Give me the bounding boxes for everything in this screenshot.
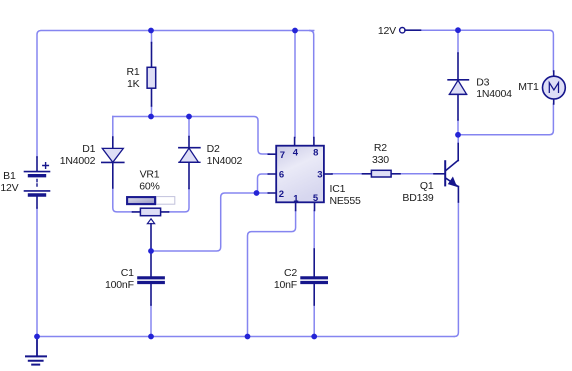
svg-text:C1: C1: [121, 267, 134, 279]
svg-text:5: 5: [313, 193, 319, 204]
diode D1: [102, 137, 124, 188]
wire D1 bottom to VR1 left: [113, 188, 133, 212]
wire Q1 emitter to ground rail: [454, 202, 458, 337]
svg-text:D2: D2: [207, 143, 220, 155]
wire diode rail to pin 7: [113, 117, 269, 155]
wire top rail with left corner: [37, 31, 314, 158]
capacitor C1: [139, 251, 164, 305]
svg-text:8: 8: [313, 148, 318, 159]
wire C2 bottom: [313, 305, 315, 337]
wire VR1 right to D2 bottom: [169, 189, 190, 212]
diode D2: [179, 137, 200, 189]
wire pin 3 to R2: [332, 173, 363, 175]
svg-text:330: 330: [372, 154, 389, 166]
svg-text:6: 6: [279, 170, 284, 181]
node IC pin4 top rail: [292, 28, 298, 34]
svg-text:1N4002: 1N4002: [60, 155, 96, 167]
wire D2 top: [188, 117, 190, 137]
wire bottom rail: [37, 336, 454, 338]
wire Q1 collector: [457, 135, 459, 144]
svg-text:1K: 1K: [127, 78, 140, 90]
12V supply terminal: [400, 28, 421, 33]
ground: [26, 337, 46, 365]
svg-text:10nF: 10nF: [274, 279, 297, 291]
motor MT1: [543, 71, 566, 104]
svg-text:100nF: 100nF: [105, 279, 134, 291]
wire motor bottom to node: [458, 104, 554, 135]
svg-text:12V: 12V: [0, 182, 18, 194]
svg-text:MT1: MT1: [518, 81, 539, 93]
svg-text:D3: D3: [476, 77, 489, 89]
svg-text:4: 4: [293, 147, 299, 158]
wire pin 2 to wiper node: [151, 193, 269, 251]
svg-text:B1: B1: [3, 170, 16, 182]
svg-text:C2: C2: [284, 267, 297, 279]
node D2 diode rail: [186, 114, 192, 120]
svg-text:1N4004: 1N4004: [476, 88, 512, 100]
svg-text:2: 2: [279, 189, 284, 200]
svg-text:60%: 60%: [139, 181, 159, 193]
svg-text:BD139: BD139: [402, 192, 433, 204]
node C1 ground: [148, 334, 154, 340]
svg-text:12V: 12V: [378, 25, 396, 37]
wire pin 8 from top rail: [310, 31, 314, 138]
svg-text:1N4002: 1N4002: [207, 155, 243, 167]
wire pin 1 to ground rail: [248, 211, 296, 337]
IC IC1 NE555 timer: [268, 138, 332, 211]
svg-text:7: 7: [280, 150, 285, 161]
svg-text:R2: R2: [374, 142, 387, 154]
node pin2 junction: [254, 190, 260, 196]
svg-text:R1: R1: [126, 66, 139, 78]
transistor Q1: [434, 144, 458, 203]
wire R2 to Q1 base: [400, 173, 434, 175]
wire pin 4 from top rail: [294, 31, 296, 138]
capacitor C2: [302, 249, 327, 305]
wire C1 bottom: [150, 305, 152, 337]
wire left rail lower (battery to ground): [36, 208, 38, 337]
node wiper C1: [148, 248, 154, 254]
node R1 top rail: [148, 28, 154, 34]
svg-text:Q1: Q1: [420, 180, 434, 192]
svg-text:D1: D1: [82, 143, 95, 155]
wire R1 top: [151, 31, 153, 44]
resistor R2: [363, 170, 401, 177]
wire pin 6 to pin 2: [258, 174, 270, 192]
wire D3 bottom: [457, 120, 459, 135]
node R1 diode rail: [148, 114, 154, 120]
node ground rail left: [34, 334, 40, 340]
svg-text:IC1: IC1: [330, 183, 346, 195]
wire D3 top: [457, 30, 459, 53]
potentiometer VR1: [127, 197, 175, 251]
resistor R1: [147, 43, 156, 107]
svg-text:1: 1: [293, 194, 299, 205]
node pin1 ground: [245, 334, 251, 340]
svg-text:NE555: NE555: [330, 195, 361, 207]
wire pin 5 to C2: [313, 211, 315, 250]
svg-text:VR1: VR1: [140, 168, 160, 180]
wire 12V terminal rail to motor: [421, 30, 554, 71]
diode D3: [448, 53, 468, 120]
node C2 ground: [311, 334, 317, 340]
wire R1 bottom: [151, 106, 153, 117]
wire D1 top: [112, 117, 114, 138]
svg-text:3: 3: [317, 170, 322, 181]
battery B1: [25, 157, 50, 208]
node D3 motor collector: [455, 132, 461, 138]
node 12V D3: [455, 27, 461, 33]
